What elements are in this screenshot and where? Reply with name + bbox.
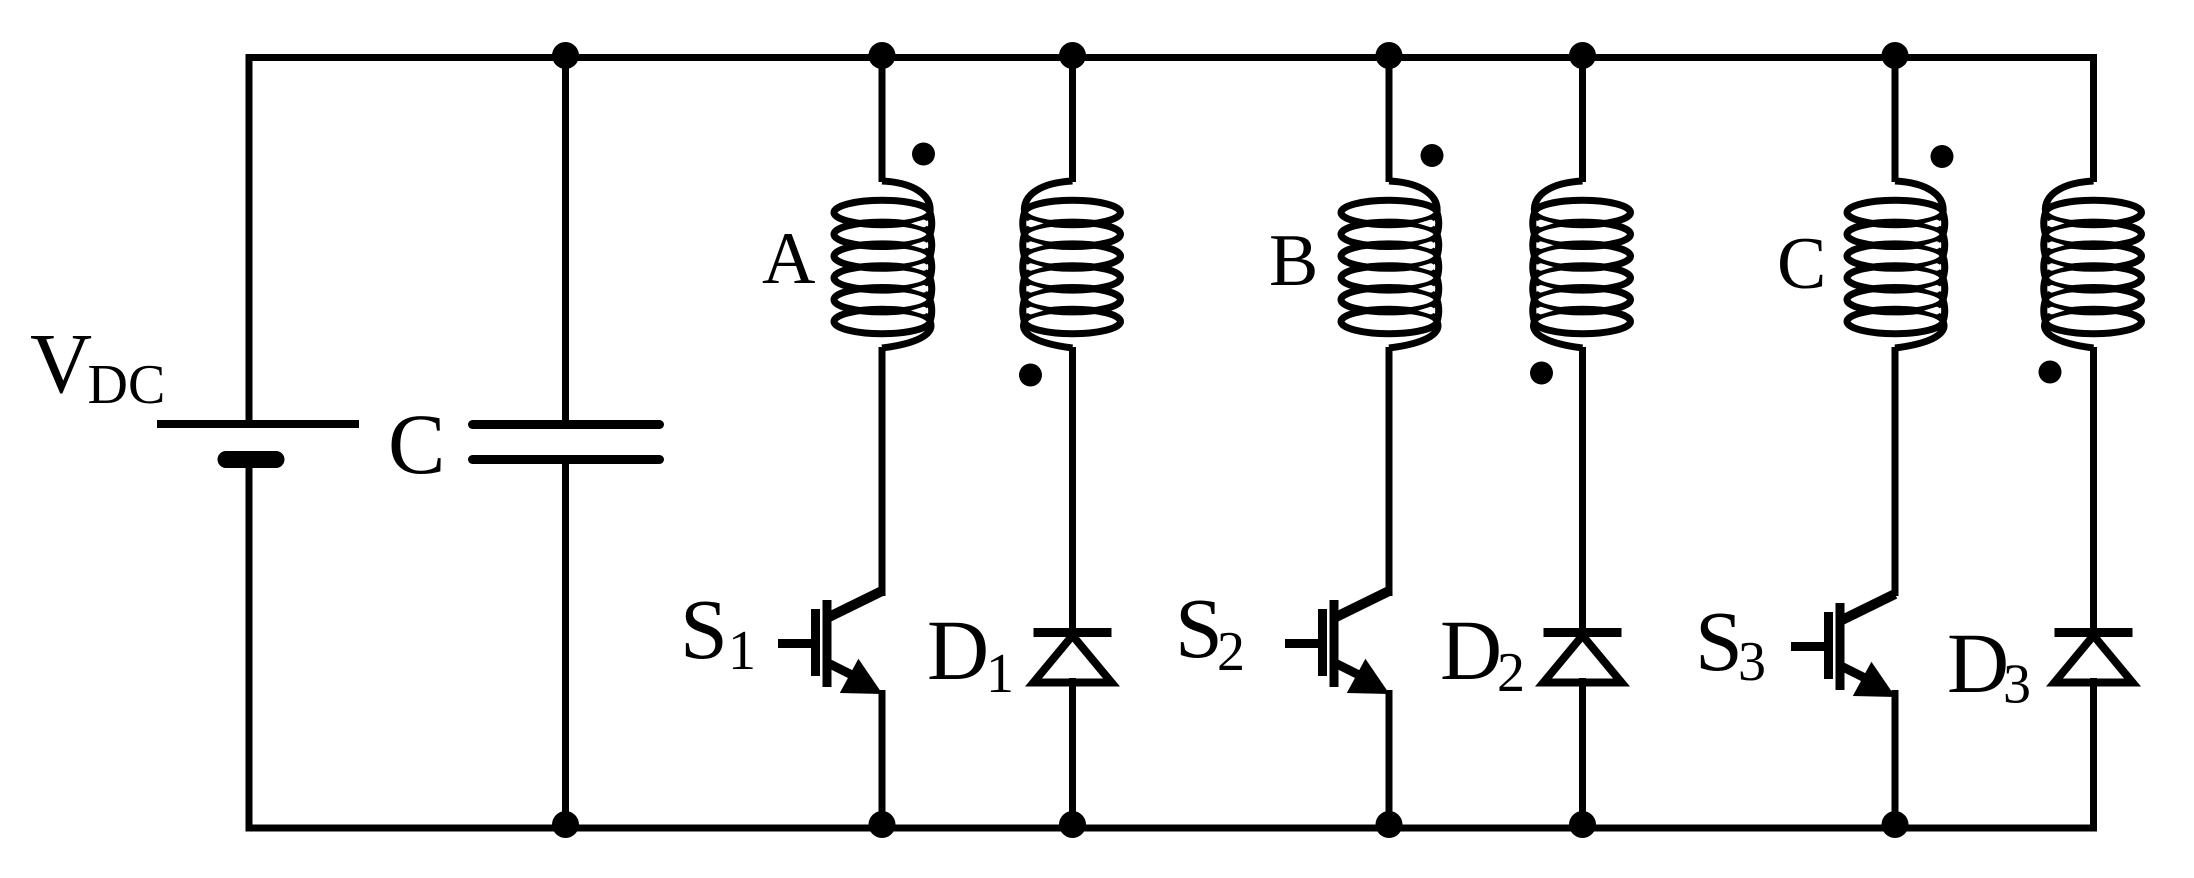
svg-text:1: 1 [728,620,756,682]
svg-text:1: 1 [986,643,1014,705]
svg-text:D: D [1440,602,1502,698]
svg-text:DC: DC [88,354,166,416]
svg-text:D: D [1947,615,2009,711]
svg-text:V: V [30,315,92,411]
svg-text:3: 3 [2003,654,2031,716]
svg-text:S: S [1695,593,1743,689]
svg-text:A: A [762,218,815,300]
svg-text:S: S [1175,580,1223,676]
svg-text:C: C [388,396,445,492]
svg-text:3: 3 [1738,631,1766,693]
svg-text:S: S [680,581,728,677]
svg-text:2: 2 [1497,642,1525,704]
svg-text:2: 2 [1217,621,1245,683]
svg-text:D: D [927,602,989,698]
svg-text:B: B [1269,220,1318,302]
svg-text:C: C [1777,223,1826,305]
